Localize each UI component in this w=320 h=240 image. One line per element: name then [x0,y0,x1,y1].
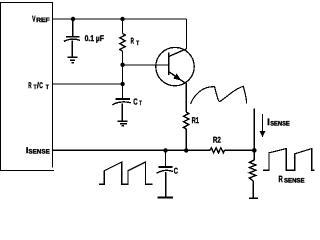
wire: VREF rail [53,18,187,20]
IC box (UC3842 style controller, partial at left) [0,3,54,171]
transistor Q1 emitter arrow [173,74,181,81]
svg-text:R2: R2 [213,136,221,145]
wire: R2 to RSENSE node [225,149,255,151]
ground G1 [68,57,78,62]
waveform: hand-drawn sawtooth (middle) [191,86,247,103]
svg-text:SENSE: SENSE [270,120,290,127]
node C: base junction [120,63,124,67]
svg-text:0.1 µF: 0.1 µF [85,34,104,43]
resistor RSENSE [249,160,256,181]
resistor R1 [184,112,189,129]
ground G3 [158,196,174,198]
resistor R2 [210,148,225,153]
svg-text:R: R [279,174,284,184]
svg-text:T: T [136,40,139,47]
svg-text:SENSE: SENSE [28,149,49,156]
transistor Q1 collector [169,49,187,57]
node D: RT/CT junction [120,82,124,86]
pin label VREF [32,14,50,24]
svg-text:R: R [131,37,134,46]
label RSENSE [279,174,306,185]
wire: node stub up [253,109,255,151]
resistor RT [120,34,125,52]
wire: 0.1uF top lead [72,19,74,36]
svg-text:C: C [39,81,43,90]
label R2 [213,136,221,145]
capacitor CT curved plate [112,102,130,105]
label CT [133,96,142,106]
wire: CT bottom lead [121,103,123,121]
ground G4 [249,197,258,199]
capacitor 0.1uF curved plate [64,39,80,41]
wire: ISENSE pin line [53,149,211,151]
wire: base lead [123,64,169,66]
wire: 0.1uF bottom lead [71,40,73,56]
svg-text:R1: R1 [192,116,200,125]
node E: C junction [163,148,167,152]
pin label ISENSE [26,146,50,156]
svg-text:T: T [46,84,49,91]
node B: VREF/RT junction [120,17,124,21]
capacitor C top plate [159,166,173,168]
transistor Q1 emitter [169,72,185,83]
wire: collector drop [186,19,188,49]
label R1 [192,116,200,125]
svg-text:C: C [174,166,178,175]
node F: R1 junction [184,148,188,152]
wire: C bottom lead [165,172,167,197]
wire: RT top lead [122,19,124,34]
capacitor 0.1uF top plate [66,36,80,38]
wire: RSENSE bottom lead [252,181,254,198]
capacitor C curved plate [157,170,173,173]
label RT [131,37,140,48]
svg-text:C: C [133,96,137,106]
svg-text:REF: REF [36,17,50,24]
wire: emitter to R1 [185,83,187,112]
wire: RT/CT pin [53,83,123,85]
wire: RT bottom to CT [122,51,124,99]
svg-text:R: R [28,81,31,90]
svg-text:SENSE: SENSE [284,178,305,185]
capacitor CT top plate [116,98,131,100]
wire: RSENSE top lead [253,150,255,160]
transistor Q1 base bar [168,53,170,76]
label C [174,166,178,175]
node G: RSENSE junction [252,148,257,153]
ISENSE current arrow [262,114,264,131]
label ISENSE (arrow) [267,116,290,127]
value label 0.1 uF [85,34,104,43]
pin label RT/CT [28,81,49,91]
wire: C top lead [165,150,167,167]
transistor Q1 circle [156,47,194,85]
waveform: CT ramp (bottom left) [99,162,153,184]
wire: R1 to sense line [185,129,187,150]
node A: VREF/0.1uF junction [71,17,75,21]
svg-text:T: T [139,100,142,107]
ground G2 [118,121,128,125]
waveform: ISENSE trapezoid (bottom right) [263,149,315,171]
